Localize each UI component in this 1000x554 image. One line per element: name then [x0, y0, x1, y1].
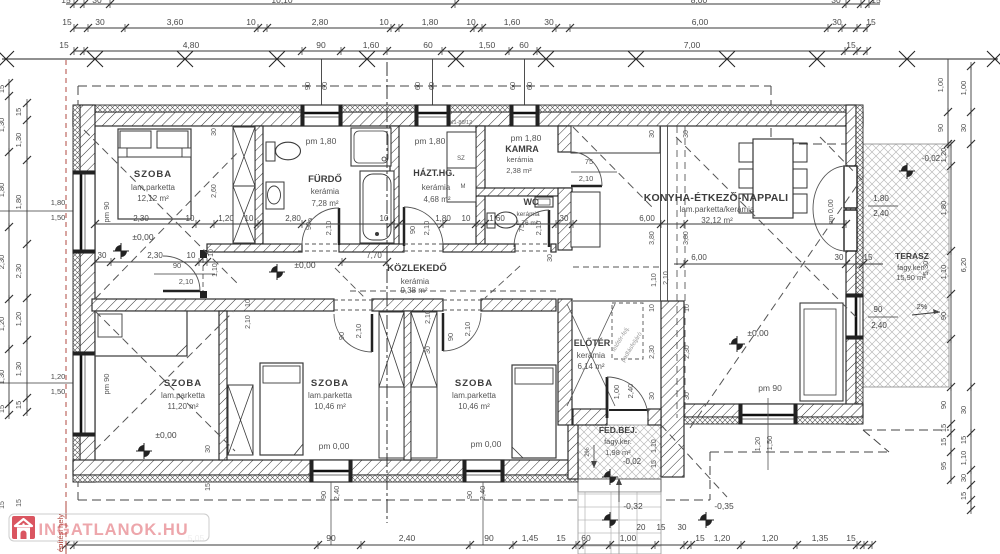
svg-text:7,00: 7,00	[684, 40, 701, 50]
interior wall bathroom/utility	[390, 126, 399, 244]
roof diagonal kitchen	[573, 127, 655, 210]
svg-text:1,80: 1,80	[0, 183, 6, 198]
utility door	[403, 207, 406, 246]
entry hall bottom wall segments	[573, 409, 607, 425]
bedroom1 double bed	[118, 129, 191, 219]
outer wall bottom right section (living room)	[684, 404, 863, 417]
svg-text:90: 90	[874, 305, 883, 314]
svg-text:90: 90	[465, 491, 474, 499]
svg-text:1,50: 1,50	[479, 40, 496, 50]
watermark logo	[12, 516, 35, 539]
svg-text:SZ: SZ	[457, 156, 465, 162]
svg-text:15: 15	[0, 501, 6, 509]
svg-text:30: 30	[425, 346, 432, 354]
interior wall pantry/wc horizontal	[476, 188, 572, 196]
entry hall attic cross	[567, 304, 615, 406]
svg-text:10: 10	[208, 249, 215, 257]
left window sill note 1,20/1,50	[0, 382, 73, 384]
svg-text:pm 90: pm 90	[102, 374, 111, 395]
roof diagonal living a	[676, 137, 856, 317]
svg-text:2,40: 2,40	[399, 533, 416, 543]
svg-text:1,20: 1,20	[14, 312, 23, 327]
roof diagonal hall small	[335, 268, 365, 298]
svg-text:2,10: 2,10	[324, 221, 333, 236]
watermark background	[9, 514, 209, 541]
door jamb piers bedroom1	[200, 250, 207, 258]
svg-text:építési hely: építési hely	[56, 514, 65, 552]
window top utility	[415, 105, 450, 126]
svg-text:4,68 m²: 4,68 m²	[423, 195, 450, 204]
svg-text:1,00: 1,00	[936, 78, 945, 93]
window bottom right bedroom	[463, 460, 504, 482]
svg-text:10: 10	[245, 299, 252, 307]
svg-text:90: 90	[446, 333, 455, 341]
svg-text:8,00: 8,00	[691, 0, 708, 5]
svg-text:1,20: 1,20	[51, 372, 66, 381]
svg-text:90: 90	[408, 226, 417, 234]
wc basin	[535, 197, 553, 207]
svg-text:pm 1,80: pm 1,80	[306, 136, 337, 146]
kitchen counter side	[571, 192, 600, 247]
svg-text:1,60: 1,60	[504, 17, 521, 27]
svg-text:15: 15	[871, 0, 881, 5]
double terrace door leaves	[844, 166, 857, 208]
svg-text:KÖZLEKEDŐ: KÖZLEKEDŐ	[387, 262, 447, 274]
interior dim line hall	[95, 261, 387, 263]
svg-text:2,40: 2,40	[873, 209, 889, 218]
svg-text:2,80: 2,80	[285, 214, 301, 223]
svg-text:75: 75	[585, 157, 593, 166]
svg-text:20: 20	[637, 523, 646, 532]
svg-text:2,30: 2,30	[133, 214, 149, 223]
svg-text:SZOBA: SZOBA	[455, 378, 493, 389]
right inner chain	[950, 144, 952, 480]
svg-text:1,50: 1,50	[765, 436, 774, 451]
svg-text:2,10: 2,10	[463, 322, 472, 337]
roof overhang dashed outline	[78, 85, 771, 87]
svg-text:15: 15	[846, 533, 856, 543]
svg-text:pm 0,00: pm 0,00	[471, 439, 502, 449]
attic hatch dashed box	[612, 303, 643, 359]
svg-text:1,60: 1,60	[489, 214, 505, 223]
window top pantry pm 1,80	[510, 105, 539, 126]
svg-text:2,40: 2,40	[871, 321, 887, 330]
svg-text:±0,00: ±0,00	[155, 430, 176, 440]
bathtub	[360, 171, 394, 243]
svg-text:kerámia: kerámia	[401, 277, 430, 286]
svg-text:FED.BEJ.: FED.BEJ.	[599, 425, 637, 435]
axis markers below porch	[604, 471, 616, 483]
sofa	[800, 303, 843, 401]
svg-text:3,60: 3,60	[167, 17, 184, 27]
svg-text:1,50: 1,50	[51, 387, 66, 396]
svg-text:3,80: 3,80	[649, 231, 656, 245]
svg-text:15: 15	[205, 483, 212, 491]
bedroom-left-bottom bed	[95, 311, 187, 356]
svg-text:6,00: 6,00	[639, 214, 655, 223]
svg-text:KAMRA: KAMRA	[505, 144, 539, 154]
svg-text:15: 15	[61, 0, 71, 5]
svg-text:30: 30	[684, 392, 691, 400]
svg-text:1,50: 1,50	[51, 213, 66, 222]
svg-text:FÜRDŐ: FÜRDŐ	[308, 173, 342, 185]
svg-text:11,20 m²: 11,20 m²	[168, 402, 199, 411]
svg-text:1,00: 1,00	[612, 385, 621, 400]
hall bottom wall segments	[92, 299, 334, 311]
svg-text:15: 15	[866, 17, 876, 27]
svg-text:2,30: 2,30	[14, 264, 23, 279]
terrace axis marker	[901, 165, 913, 177]
bedroom-middle bed	[260, 363, 303, 455]
svg-text:TERASZ: TERASZ	[895, 251, 929, 261]
svg-text:1,20: 1,20	[762, 533, 779, 543]
svg-text:10: 10	[379, 17, 389, 27]
svg-text:6,14 m²: 6,14 m²	[577, 362, 604, 371]
svg-text:kerámia: kerámia	[516, 211, 540, 218]
svg-text:2,10: 2,10	[425, 310, 432, 324]
svg-text:2,80: 2,80	[312, 17, 329, 27]
svg-text:2,10: 2,10	[179, 277, 194, 286]
svg-text:2,38 m²: 2,38 m²	[506, 166, 532, 175]
svg-text:2,30: 2,30	[147, 251, 163, 260]
living room width dim line	[674, 263, 883, 265]
roof diagonal bedroom-bottom b	[95, 312, 233, 450]
svg-text:30: 30	[832, 17, 842, 27]
svg-text:5,30: 5,30	[921, 261, 930, 276]
svg-text:1,20: 1,20	[939, 148, 948, 163]
svg-text:1,20: 1,20	[714, 533, 731, 543]
svg-text:kerámia: kerámia	[422, 183, 451, 192]
svg-text:kerámia: kerámia	[507, 155, 535, 164]
svg-text:SZOBA: SZOBA	[311, 378, 349, 389]
back-to-back wardrobes	[379, 312, 404, 387]
svg-text:30: 30	[835, 253, 844, 262]
pantry door	[571, 185, 602, 188]
roof diagonal living b	[690, 184, 858, 428]
window top bathroom pm 1,80	[301, 105, 342, 126]
interior wall utility/pantry	[476, 126, 485, 244]
left inner dimension chain	[26, 103, 28, 412]
roof diagonal bedroom1 b	[95, 150, 240, 299]
hall open boundary dashed	[573, 266, 661, 268]
axis leader stubs	[321, 59, 323, 105]
svg-text:2,30: 2,30	[0, 255, 6, 270]
dining table	[753, 139, 793, 218]
svg-text:10: 10	[245, 214, 254, 223]
window left bedroom1	[73, 171, 95, 253]
window right living room	[846, 294, 863, 339]
svg-text:1,10: 1,10	[651, 439, 658, 453]
svg-text:1,30: 1,30	[0, 370, 6, 385]
svg-text:-0,02: -0,02	[623, 457, 642, 466]
svg-text:pm 1,80: pm 1,80	[511, 133, 542, 143]
svg-text:ø: ø	[308, 217, 313, 224]
svg-text:15: 15	[695, 533, 705, 543]
svg-text:1,60: 1,60	[363, 40, 380, 50]
svg-text:1,35: 1,35	[812, 533, 829, 543]
svg-text:1,80: 1,80	[51, 198, 66, 207]
walkway paving	[578, 492, 661, 554]
outer wall top	[73, 112, 863, 126]
svg-text:30: 30	[683, 130, 690, 138]
bathroom door	[338, 208, 341, 245]
interior wall pantry-wc right upper	[558, 126, 572, 152]
svg-text:95: 95	[939, 462, 948, 470]
entry hall top edge	[573, 300, 661, 302]
svg-text:60: 60	[581, 533, 591, 543]
svg-text:1,80: 1,80	[435, 214, 451, 223]
svg-text:pm 90: pm 90	[102, 202, 111, 223]
window bottom middle bedroom	[310, 460, 352, 482]
step arrow	[618, 482, 620, 502]
svg-text:10: 10	[380, 214, 389, 223]
svg-text:30: 30	[95, 17, 105, 27]
interior wall bedroom-left/middle	[219, 311, 227, 460]
roof diagonal living c	[820, 137, 862, 180]
svg-text:30: 30	[649, 130, 656, 138]
svg-text:15: 15	[14, 108, 23, 116]
svg-text:±0,00: ±0,00	[294, 260, 315, 270]
bedroom-right bed	[512, 365, 556, 458]
svg-text:2,60: 2,60	[211, 184, 218, 198]
svg-text:15: 15	[959, 492, 968, 500]
svg-text:15: 15	[62, 17, 72, 27]
svg-text:pm 0,00: pm 0,00	[828, 199, 835, 224]
svg-text:15: 15	[556, 533, 566, 543]
window bottom living room	[739, 404, 797, 424]
svg-text:10,46 m²: 10,46 m²	[458, 402, 490, 411]
left window sill note 1,80/1,50	[0, 210, 73, 212]
svg-text:1,10: 1,10	[959, 451, 968, 466]
svg-text:15: 15	[939, 424, 948, 432]
svg-text:30: 30	[211, 128, 218, 136]
svg-text:2%: 2%	[917, 302, 928, 311]
top dimension row 2	[74, 27, 867, 29]
bathroom toilet	[266, 142, 275, 161]
svg-text:30: 30	[98, 251, 107, 260]
svg-text:60: 60	[423, 40, 433, 50]
svg-text:10,46 m²: 10,46 m²	[314, 402, 346, 411]
svg-text:6,00: 6,00	[692, 17, 709, 27]
bottom dimension row	[66, 544, 872, 546]
svg-text:pm 90: pm 90	[758, 383, 782, 393]
svg-text:10: 10	[649, 304, 656, 312]
svg-text:30: 30	[544, 17, 554, 27]
kitchen counter top	[571, 126, 660, 153]
svg-text:90: 90	[326, 533, 336, 543]
right outer chain	[970, 66, 972, 510]
svg-text:30: 30	[547, 254, 554, 262]
svg-text:M: M	[461, 184, 466, 190]
svg-text:10: 10	[466, 17, 476, 27]
svg-text:KONYHA-ÉTKEZŐ-NAPPALI: KONYHA-ÉTKEZŐ-NAPPALI	[644, 191, 789, 204]
svg-text:1,20: 1,20	[753, 437, 762, 452]
svg-text:30: 30	[92, 0, 102, 5]
front entry door	[606, 377, 609, 418]
svg-text:30: 30	[205, 445, 212, 453]
window left bedroom-bottom	[73, 352, 95, 436]
svg-text:15: 15	[657, 523, 666, 532]
double door swing arcs	[813, 166, 846, 209]
shower tray	[351, 128, 391, 166]
svg-text:1,80: 1,80	[939, 201, 948, 216]
svg-text:10: 10	[462, 214, 471, 223]
interior wall bedroom1/bathroom	[255, 126, 263, 244]
svg-text:2,10: 2,10	[579, 174, 594, 183]
svg-text:lam.parketta: lam.parketta	[452, 391, 497, 400]
svg-text:15: 15	[14, 401, 23, 409]
bedroom-middle wardrobe	[228, 385, 253, 455]
svg-text:30: 30	[649, 392, 656, 400]
svg-text:1,10: 1,10	[651, 273, 658, 287]
svg-text:SZOBA: SZOBA	[134, 169, 172, 180]
svg-text:90: 90	[936, 124, 945, 132]
svg-text:lam.parketta: lam.parketta	[131, 183, 176, 192]
hall top wall segments	[207, 244, 302, 252]
svg-text:kerámia: kerámia	[577, 351, 606, 360]
top axis grid line with X markers	[2, 58, 998, 60]
interior dim line main horizontal	[95, 223, 846, 225]
svg-text:30: 30	[959, 124, 968, 132]
svg-text:90: 90	[337, 332, 346, 340]
svg-text:1,10: 1,10	[939, 265, 948, 280]
wc toilet	[487, 213, 495, 228]
outer wall bottom left section	[73, 460, 578, 475]
svg-text:WC: WC	[524, 197, 539, 207]
svg-text:15: 15	[651, 460, 658, 468]
wc door	[548, 210, 551, 247]
svg-text:1,76 m²: 1,76 m²	[516, 220, 539, 227]
svg-text:lam.parketta/kerámia: lam.parketta/kerámia	[680, 205, 755, 214]
svg-text:K1-80/12: K1-80/12	[450, 120, 472, 126]
svg-text:15: 15	[864, 253, 873, 262]
svg-text:1,98 m²: 1,98 m²	[605, 448, 631, 457]
svg-text:6,00: 6,00	[691, 253, 707, 262]
outer wall right	[846, 105, 856, 424]
svg-text:10: 10	[246, 17, 256, 27]
roof diagonal porch corner	[661, 425, 727, 497]
svg-text:kerámia: kerámia	[311, 187, 340, 196]
bedroom1 door to hall	[163, 290, 200, 293]
svg-text:2,40: 2,40	[478, 486, 487, 501]
kitchen living boundary solid lines	[660, 126, 662, 301]
svg-text:90: 90	[319, 491, 328, 499]
roof diagonal bedroom-bottom a	[95, 311, 235, 451]
svg-text:2,10: 2,10	[663, 271, 670, 285]
bedroom1 wardrobe	[233, 127, 255, 243]
svg-text:15: 15	[0, 85, 6, 93]
svg-text:9,38 m²: 9,38 m²	[400, 286, 427, 295]
svg-text:10: 10	[187, 251, 196, 260]
svg-text:30: 30	[959, 474, 968, 482]
top dimension row 1 (partially cut)	[66, 3, 880, 5]
svg-text:30: 30	[959, 406, 968, 414]
svg-text:2,10: 2,10	[354, 324, 363, 339]
svg-text:1,45: 1,45	[522, 533, 539, 543]
svg-text:15: 15	[846, 40, 856, 50]
interior wall pantry-wc right lower	[558, 188, 572, 250]
terrace hatched paving	[863, 144, 949, 387]
section line dash-dot	[386, 62, 388, 523]
window axis stubs bottom	[330, 482, 332, 545]
svg-text:6,20: 6,20	[959, 258, 968, 273]
svg-text:15: 15	[939, 438, 948, 446]
dining chairs right	[793, 143, 807, 162]
dining chairs left	[739, 143, 753, 162]
svg-text:-0,02: -0,02	[922, 154, 941, 163]
svg-text:90: 90	[939, 401, 948, 409]
svg-text:1,20: 1,20	[0, 317, 6, 332]
svg-text:2,40: 2,40	[332, 486, 341, 501]
middle bedroom door	[371, 314, 374, 352]
svg-text:SZOBA: SZOBA	[164, 378, 202, 389]
svg-text:10: 10	[186, 214, 195, 223]
svg-text:3,80: 3,80	[683, 231, 690, 245]
svg-text:2,10: 2,10	[245, 315, 252, 329]
svg-text:7,28 m²: 7,28 m²	[311, 199, 338, 208]
svg-text:2%: 2%	[584, 447, 591, 457]
outer wall left	[80, 105, 95, 482]
entry porch left wall	[568, 424, 578, 479]
svg-text:15: 15	[16, 499, 23, 507]
svg-text:2,10: 2,10	[422, 221, 431, 236]
svg-text:1,00: 1,00	[959, 81, 968, 96]
interior thin wall middle bedrooms	[404, 311, 411, 460]
svg-text:90: 90	[939, 312, 948, 320]
right bedroom door	[442, 313, 445, 351]
svg-text:1,30: 1,30	[14, 133, 23, 148]
svg-text:fagy.ker.: fagy.ker.	[604, 437, 632, 446]
svg-text:pm 0,00: pm 0,00	[319, 441, 350, 451]
svg-text:15: 15	[959, 436, 968, 444]
svg-text:±0,00: ±0,00	[132, 232, 153, 242]
top dimension row 3	[74, 50, 867, 52]
interior wall hall left upper	[558, 299, 572, 425]
svg-text:HÁZT.HG.: HÁZT.HG.	[413, 168, 455, 178]
entry hall right wall	[661, 301, 684, 477]
svg-text:1,30: 1,30	[0, 118, 6, 133]
covered entry porch paving	[578, 425, 661, 479]
svg-text:1,30: 1,30	[14, 362, 23, 377]
svg-text:90: 90	[316, 40, 326, 50]
svg-text:7,70: 7,70	[366, 251, 382, 260]
svg-text:-0,32: -0,32	[623, 501, 643, 511]
red dashed property line	[65, 60, 67, 554]
roof diagonal bedroom1 a	[84, 130, 239, 285]
svg-text:15: 15	[0, 405, 6, 413]
svg-text:lam.parketta: lam.parketta	[308, 391, 353, 400]
svg-text:15: 15	[59, 40, 69, 50]
svg-text:10,10: 10,10	[271, 0, 293, 5]
svg-text:30: 30	[560, 214, 569, 223]
svg-text:2,40: 2,40	[626, 384, 635, 399]
entry steps	[578, 479, 661, 492]
right inner top chain	[947, 59, 949, 144]
svg-text:60: 60	[519, 40, 529, 50]
svg-text:1,10: 1,10	[212, 263, 219, 277]
svg-text:-0,35: -0,35	[714, 501, 734, 511]
svg-text:pm 1,80: pm 1,80	[415, 136, 446, 146]
svg-text:4,80: 4,80	[183, 40, 200, 50]
svg-text:30: 30	[678, 523, 687, 532]
bathroom sink	[266, 182, 284, 209]
kitchen boundary dashed pair	[676, 126, 678, 418]
svg-text:1,80: 1,80	[14, 195, 23, 210]
svg-text:10: 10	[684, 304, 691, 312]
bedroom1 bottom boundary line	[95, 261, 207, 263]
left outer dimension chain	[8, 83, 10, 415]
svg-text:2,30: 2,30	[649, 345, 656, 359]
